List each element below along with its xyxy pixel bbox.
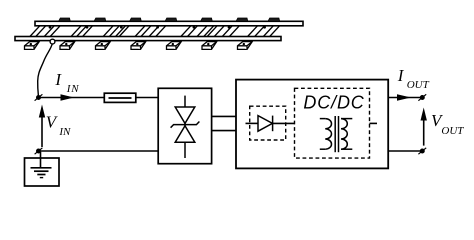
- rail (near/lower): [15, 37, 281, 41]
- track tie hatch group 5: [181, 26, 214, 37]
- diode D2: [258, 116, 273, 132]
- svg-text:DC/DC: DC/DC: [303, 93, 364, 113]
- wire: TVS box to converter box (lower): [212, 130, 236, 132]
- converter outer box U1: [236, 80, 388, 169]
- wire through diode: [246, 122, 259, 124]
- rail (far/upper): [35, 21, 303, 26]
- transformer T1: [320, 116, 353, 152]
- sleeper end block 1: [25, 42, 40, 50]
- svg-text:IN: IN: [66, 83, 80, 95]
- wire: converter to output terminal (bottom): [388, 150, 420, 152]
- stub wire right of DC/DC: [370, 122, 378, 124]
- rail tap circle: [50, 39, 55, 44]
- track tie hatch group 4: [135, 26, 166, 37]
- track tie hatch group 6: [207, 26, 239, 37]
- track tie hatch group 7: [248, 26, 280, 37]
- DC/DC converter dashed sub-box: [295, 88, 370, 158]
- wire: input node to fuse: [39, 97, 105, 99]
- sleeper end block 4: [131, 42, 146, 50]
- bidirectional TVS diode D1: [171, 96, 200, 158]
- input return terminal node (-): [35, 148, 43, 154]
- track tie hatch group 1: [30, 26, 60, 37]
- sleeper caps above upper rail: [59, 18, 280, 21]
- track tie hatch group 3: [103, 26, 129, 37]
- rectifier diode dashed sub-box: [250, 106, 286, 140]
- TVS protection box: [158, 88, 211, 163]
- svg-text:IN: IN: [58, 126, 71, 138]
- earth ground symbol: [31, 168, 52, 178]
- svg-text:OUT: OUT: [441, 125, 464, 137]
- sleeper end block 3: [96, 42, 111, 50]
- sleeper end block 7: [238, 42, 253, 50]
- input terminal node (+): [35, 94, 43, 100]
- wire: TVS box to converter box (upper): [212, 115, 236, 117]
- voltage arrow V_IN: [39, 105, 45, 148]
- ground enclosure box: [25, 158, 60, 186]
- wire from rail tap to input node: [38, 44, 53, 96]
- sleeper end block 2: [60, 42, 75, 50]
- wire: node down to ground box: [40, 152, 42, 168]
- current arrow I_OUT: [397, 94, 411, 100]
- output terminal node (-): [418, 148, 426, 154]
- wire: converter to output terminal (top): [388, 97, 420, 99]
- track tie hatch group 2: [71, 26, 92, 37]
- wire: bottom rail (return): [39, 150, 159, 152]
- output terminal node (+): [418, 94, 426, 100]
- sleeper end block 6: [202, 42, 217, 50]
- wire: fuse to TVS box: [136, 97, 158, 99]
- sleeper ties (between-rail hatch): [30, 26, 280, 37]
- sleeper end block 5: [167, 42, 182, 50]
- svg-text:OUT: OUT: [407, 79, 430, 91]
- sleeper end boxes below lower rail: [25, 42, 253, 50]
- fuse/resistor F1: [104, 93, 136, 102]
- current arrow I_IN: [61, 94, 75, 100]
- voltage arrow V_OUT: [421, 108, 427, 146]
